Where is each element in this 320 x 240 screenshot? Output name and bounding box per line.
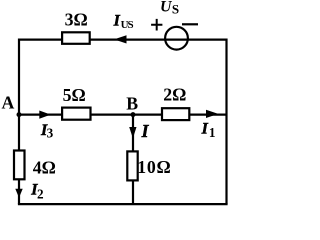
svg-text:I: I: [201, 121, 209, 138]
svg-text:10Ω: 10Ω: [137, 157, 171, 177]
svg-text:3: 3: [47, 126, 54, 141]
svg-text:2: 2: [37, 187, 44, 202]
polarity minus sign: [182, 23, 198, 25]
wire middle vertical (B branch): [132, 115, 134, 205]
resistor R 10ohm (middle branch, vertical): [127, 151, 137, 180]
resistor R 3ohm (top branch): [62, 32, 90, 44]
svg-text:I: I: [113, 13, 121, 30]
polarity plus sign: [151, 19, 162, 31]
current arrow I3 (pointing right, A to 5ohm): [39, 111, 50, 119]
svg-text:4Ω: 4Ω: [33, 157, 56, 177]
current arrow I (pointing down from B): [129, 127, 136, 138]
resistor R 4ohm (left branch, vertical): [14, 151, 25, 180]
svg-text:2Ω: 2Ω: [163, 85, 186, 105]
current arrow I1 (pointing right toward right wire): [206, 110, 218, 118]
voltage source U_S (circle): [165, 27, 188, 50]
svg-text:S: S: [172, 2, 179, 17]
wire right vertical: [225, 39, 227, 205]
svg-text:5Ω: 5Ω: [63, 85, 86, 105]
svg-text:3Ω: 3Ω: [65, 10, 88, 30]
svg-text:A: A: [2, 93, 15, 113]
svg-text:B: B: [126, 94, 138, 114]
svg-text:US: US: [121, 19, 134, 31]
wire bottom: [18, 203, 228, 205]
wire left vertical (A branch): [18, 39, 20, 205]
resistor R 2ohm (middle branch B-right): [162, 108, 189, 120]
current arrow I2 (pointing down on left branch): [15, 189, 22, 198]
node B dot: [131, 112, 136, 117]
svg-text:1: 1: [209, 125, 216, 140]
wire middle horizontal (A to B to right): [19, 113, 227, 115]
wire top (left corner to voltage source to right corner): [19, 38, 227, 40]
resistor R 5ohm (middle branch A-B): [62, 108, 90, 120]
node A dot: [17, 112, 22, 117]
current arrow I_US (pointing left on top wire): [114, 35, 127, 43]
svg-text:I: I: [141, 121, 150, 141]
